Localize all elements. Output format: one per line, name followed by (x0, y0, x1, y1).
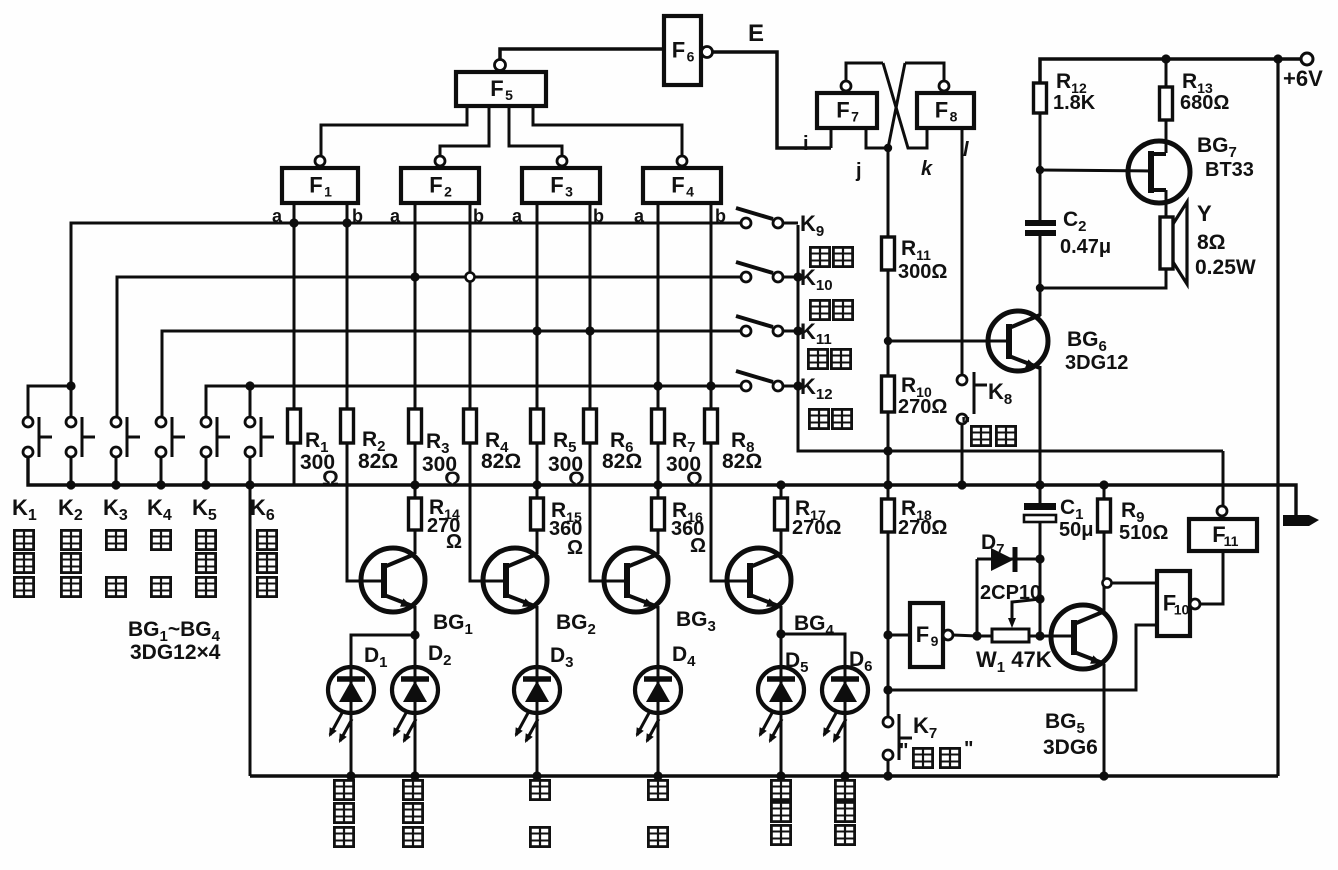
wire F2a column (414, 203, 417, 409)
label D6 ear-right (835, 780, 854, 799)
svg-text:Ω: Ω (444, 468, 461, 491)
svg-text:3DG12×4: 3DG12×4 (130, 641, 221, 664)
label K3 nose (106, 530, 125, 549)
svg-text:F: F (935, 98, 948, 123)
F10 output bubble (1190, 599, 1200, 609)
label K1 eye-left (14, 530, 33, 549)
svg-text:W1 47K: W1 47K (976, 647, 1052, 676)
label D3 nose (530, 780, 549, 799)
svg-text:8: 8 (950, 109, 958, 125)
resistor R4 82 (464, 409, 477, 443)
junction (653, 771, 662, 780)
wire D3 to bottom rail (536, 713, 539, 776)
transistor BG1 (361, 548, 425, 612)
resistor R17 270 (775, 498, 788, 530)
F9 output bubble (943, 630, 953, 640)
junction (66, 480, 75, 489)
wire R2 to BG1 base (347, 443, 384, 581)
logic gate F1 (282, 168, 358, 203)
wire BG3 emitter to D4 (657, 606, 660, 667)
net rail 4 (F4 outputs / K12) (206, 386, 741, 417)
junction (342, 218, 351, 227)
svg-text:Ω: Ω (690, 535, 706, 557)
wire BG7 emitter (1040, 170, 1151, 171)
svg-text:3: 3 (565, 184, 573, 200)
label K12 ears (809, 409, 828, 428)
junction (1273, 54, 1282, 63)
label K10 nose (810, 300, 829, 319)
LED D5 (758, 667, 804, 713)
junction (346, 771, 355, 780)
svg-text:300Ω: 300Ω (898, 261, 947, 283)
wire BG1 emitter (414, 606, 417, 635)
wire to F11 input (1222, 451, 1225, 506)
wire collector resistor to transistor (780, 530, 783, 554)
wire R6 to BG3 base (590, 443, 627, 581)
switch K12 (736, 371, 783, 391)
wire BG6 base (888, 340, 1009, 343)
wire C1 to timing node (1039, 522, 1042, 636)
wire speaker to C2 bottom (1040, 269, 1166, 288)
svg-text:0.25W: 0.25W (1195, 256, 1256, 279)
junction (840, 771, 849, 780)
label K9 eyes (810, 247, 829, 266)
resistor R12 1.8K (1034, 83, 1047, 113)
junction (289, 218, 298, 227)
transistor BG6 3DG12 (988, 311, 1048, 371)
junction (793, 381, 802, 390)
wire F4b column (710, 203, 713, 409)
junction (653, 480, 662, 489)
wire rail to collector resistor (780, 485, 783, 498)
junction (883, 771, 892, 780)
logic gate F10 (1157, 571, 1190, 636)
wire R8 to BG4 base (711, 443, 750, 581)
label K11 mouth (808, 349, 827, 368)
F8 input bubble (939, 81, 949, 91)
wire K1-K2 bracket (28, 386, 71, 417)
junction (410, 771, 419, 780)
svg-text:1.8K: 1.8K (1053, 92, 1096, 114)
capacitor C1 50u (1024, 503, 1056, 522)
svg-text:9: 9 (931, 633, 939, 649)
resistor R14 270 (409, 498, 422, 530)
junction BG7 emitter (1036, 166, 1044, 174)
wire K2 to rail (70, 457, 73, 485)
wire F7 output top (846, 63, 883, 81)
svg-text:Ω: Ω (446, 531, 462, 553)
junction (1161, 54, 1170, 63)
resistor R15 360 (531, 498, 544, 530)
wire D1 to bottom rail (350, 713, 353, 776)
svg-text:5: 5 (505, 87, 513, 103)
wire rail to R18 (887, 485, 890, 499)
junction j (884, 144, 892, 152)
resistor R10 270 (882, 376, 895, 412)
F2 input bubble (435, 156, 445, 166)
junction (1099, 480, 1108, 489)
capacitor C2 (1025, 220, 1056, 236)
wire R9 to BG5 collector (1103, 532, 1106, 611)
svg-text:": " (899, 740, 908, 762)
wire resistor to common rail (657, 443, 660, 485)
junction (776, 629, 785, 638)
logic gate F9 (910, 603, 943, 667)
svg-text:F: F (490, 76, 503, 101)
wire F3b column (589, 203, 592, 409)
LED D2 light arrows (394, 713, 416, 741)
F5 input bubble (495, 60, 506, 71)
wire F1b column (346, 203, 349, 409)
logic gate F11 (1189, 519, 1257, 551)
svg-text:i: i (803, 133, 809, 155)
junction (201, 480, 210, 489)
switch K10 (736, 262, 783, 282)
F4 input bubble (677, 156, 687, 166)
resistor R11 300 (882, 237, 895, 270)
wire rail to R13 (1165, 59, 1168, 87)
junction (883, 446, 892, 455)
resistor R18 270 (882, 499, 895, 532)
wire resistor to common rail (293, 443, 296, 485)
svg-text:6: 6 (687, 49, 695, 65)
svg-text:F: F (309, 173, 322, 198)
junction (156, 480, 165, 489)
wire K5 to rail (205, 457, 208, 485)
wire rail to collector resistor (414, 485, 417, 498)
LED D1 (328, 667, 374, 713)
junction (653, 381, 662, 390)
wire F10 to F11 (1200, 551, 1223, 604)
wire K12 to selector rail (783, 385, 798, 388)
wire F1a column (293, 203, 296, 409)
net rail 2 (F2 outputs / K10) (117, 277, 741, 417)
svg-text:1: 1 (324, 184, 332, 200)
wire K3 to rail (115, 457, 118, 485)
wire rail to collector resistor (657, 485, 660, 498)
wire R12 to C2 (1039, 113, 1042, 221)
junction (776, 480, 785, 489)
wire l to K8 (961, 128, 964, 375)
junction (883, 630, 892, 639)
wire F5 to F1 (321, 106, 467, 156)
wire rail to C1 (1039, 485, 1042, 503)
resistor R7 300 (652, 409, 665, 443)
transistor BG4 (727, 548, 791, 612)
wire W1 to BG5 base (1029, 635, 1075, 638)
svg-text:F: F (836, 98, 849, 123)
wire BG5 emitter to bottom rail (1103, 664, 1106, 776)
svg-text:82Ω: 82Ω (481, 450, 521, 473)
wire to W1 (977, 635, 992, 638)
logic gate F5 (456, 72, 546, 106)
svg-text:F: F (550, 173, 563, 198)
svg-text:Y: Y (1197, 201, 1212, 226)
wire to F9 input (888, 634, 910, 637)
svg-text:F: F (672, 38, 685, 63)
wire D5 to bottom rail (780, 713, 783, 776)
transistor BG5 3DG6 (1051, 605, 1115, 669)
LED D3 (514, 667, 560, 713)
svg-text:82Ω: 82Ω (722, 450, 762, 473)
logic gate F7 (817, 93, 877, 128)
wire BG4 emitter to D5 (780, 606, 783, 667)
+6V terminal (1301, 53, 1313, 65)
wire to D1 (351, 635, 415, 667)
wire F5 to F2 (440, 106, 489, 156)
net bottom supply rail (250, 774, 1278, 777)
wire F5 to F4 (533, 106, 682, 156)
junction (957, 480, 966, 489)
hop F2b on rail2 (466, 273, 475, 282)
junction (972, 631, 981, 640)
wire R4 to BG2 base (470, 443, 506, 581)
wire K2 stub (70, 386, 73, 417)
wire F7 cross to F8 input (883, 63, 927, 148)
wire collector resistor to transistor (414, 530, 417, 554)
wire resistor to common rail (536, 443, 539, 485)
wire R18 to K7 (887, 532, 890, 722)
junction (245, 480, 254, 489)
wire D6 to bottom rail (844, 713, 847, 776)
wire rail to R9 (1103, 485, 1106, 499)
logic gate F8 (917, 93, 974, 128)
svg-text:F: F (429, 173, 442, 198)
resistor R5 300 (531, 409, 544, 443)
svg-text:": " (961, 414, 970, 436)
wire K10 to selector rail (783, 276, 798, 279)
junction (793, 272, 802, 281)
junction (245, 381, 254, 390)
svg-text:": " (964, 738, 973, 760)
wire resistor to common rail (414, 443, 417, 485)
LED D3 light arrows (516, 713, 538, 741)
wire rail to collector resistor (536, 485, 539, 498)
junction (776, 771, 785, 780)
resistor R3 300 (409, 409, 422, 443)
junction (883, 480, 892, 489)
wire to D2 (414, 635, 417, 667)
label D1 eye-left (334, 780, 353, 799)
svg-text:BT33: BT33 (1205, 159, 1254, 181)
LED D5 light arrows (760, 713, 782, 741)
tap bubble BG5 collector (1103, 579, 1112, 588)
svg-text:j: j (855, 160, 862, 182)
label K2 eye-right (61, 530, 80, 549)
wire collector resistor to transistor (657, 530, 660, 554)
resistor R9 510 (1098, 499, 1111, 532)
wire F6 output E (712, 52, 831, 148)
F3 input bubble (557, 156, 567, 166)
diode D7 2CP10 (977, 547, 1040, 572)
svg-text:510Ω: 510Ω (1119, 522, 1168, 544)
svg-text:F: F (916, 622, 929, 647)
F7 input bubble (841, 81, 851, 91)
wire F8 output top (905, 63, 944, 81)
junction (1035, 480, 1044, 489)
svg-text:Ω: Ω (686, 468, 703, 491)
junction (410, 272, 419, 281)
switch K4 (156, 417, 185, 457)
switch K11 (736, 316, 783, 336)
LED D6 light arrows (824, 713, 846, 741)
resistor R8 82 (705, 409, 718, 443)
junction (66, 381, 75, 390)
wire D2 to bottom rail (414, 713, 417, 776)
wire K1 to rail (27, 457, 30, 485)
resistor R1 300 (288, 409, 301, 443)
junction (1035, 631, 1044, 640)
wire D4 to bottom rail (657, 713, 660, 776)
transistor BG7 BT33 (1128, 141, 1190, 203)
wire F5 to F6 (500, 49, 664, 59)
wire K6 stub (249, 386, 252, 417)
svg-text:8Ω: 8Ω (1197, 231, 1226, 254)
wire K6 to bottom rail (249, 457, 252, 776)
wire F9 output (953, 635, 977, 636)
resistor R6 82 (584, 409, 597, 443)
svg-text:270Ω: 270Ω (792, 517, 841, 539)
svg-text:11: 11 (1224, 533, 1239, 549)
wire collector resistor to transistor (536, 530, 539, 554)
svg-text:E: E (748, 20, 764, 47)
wire selector rail to F11 (798, 225, 1223, 451)
svg-text:82Ω: 82Ω (602, 450, 642, 473)
switch K6 (245, 417, 274, 457)
junction (706, 381, 715, 390)
resistor R2 82 (341, 409, 354, 443)
switch K3 (111, 417, 140, 457)
wire K7 to bottom rail (887, 760, 890, 776)
junction (410, 480, 419, 489)
LED D6 (822, 667, 868, 713)
junction speaker return (1036, 284, 1044, 292)
resistor R13 680 (1160, 87, 1173, 120)
switch K1 (23, 417, 52, 457)
label K4 mouth (151, 530, 170, 549)
wire F7 right pin node j (866, 128, 888, 148)
svg-text:3DG6: 3DG6 (1043, 736, 1098, 759)
wire F2b column (469, 203, 472, 409)
wire BG6 emitter to rail (1039, 366, 1042, 485)
junction (532, 480, 541, 489)
transistor BG3 (604, 548, 668, 612)
junction (532, 326, 541, 335)
wire j to R11 (887, 148, 890, 237)
wire K4 to rail (160, 457, 163, 485)
net rail 3 (F3 outputs / K11) (162, 331, 741, 417)
junction (1035, 594, 1044, 603)
label D2 eye-right (403, 780, 422, 799)
junction (585, 326, 594, 335)
svg-text:680Ω: 680Ω (1180, 92, 1229, 114)
svg-text:0.47μ: 0.47μ (1060, 236, 1111, 258)
junction (532, 771, 541, 780)
wire R13 to BG7 B2 (1165, 120, 1168, 153)
label K5 ear-left (196, 530, 215, 549)
potentiometer W1 47K (992, 599, 1040, 642)
svg-text:l: l (963, 139, 969, 161)
svg-text:270Ω: 270Ω (898, 396, 947, 418)
wire F10 lower input (888, 625, 1157, 690)
junction (1099, 771, 1108, 780)
F11 input bubble (1217, 506, 1227, 516)
wire BG7 B1 to speaker (1165, 190, 1168, 217)
LED D4 (635, 667, 681, 713)
LED D1 light arrows (330, 713, 352, 741)
transistor BG2 (483, 548, 547, 612)
logic gate F3 (522, 168, 600, 203)
wire F8 cross to F7 input (888, 63, 905, 148)
svg-text:k: k (921, 158, 933, 180)
net common emitter rail (28, 457, 1296, 516)
svg-text:Ω: Ω (568, 468, 585, 491)
LED D4 light arrows (637, 713, 659, 741)
switch K8 (957, 372, 987, 424)
resistor R16 360 (652, 498, 665, 530)
svg-text:Ω: Ω (567, 537, 583, 559)
junction BG6 base (884, 337, 892, 345)
wire C2 to BG6 collector (1039, 236, 1042, 316)
wire R10 to rail (887, 412, 890, 485)
junction (793, 326, 802, 335)
label D4 mouth (648, 780, 667, 799)
F6 output bubble (702, 47, 713, 58)
switch K5 (201, 417, 230, 457)
svg-text:270Ω: 270Ω (898, 517, 947, 539)
F1 input bubble (315, 156, 325, 166)
wire K9 to selector rail (783, 222, 798, 225)
wire to D6 (781, 634, 845, 667)
svg-text:+6V: +6V (1283, 66, 1323, 91)
ground symbol (1283, 515, 1319, 526)
speaker Y (1160, 202, 1187, 284)
switch K2 (66, 417, 95, 457)
label D5 ear-left (771, 780, 790, 799)
wire F3a column (536, 203, 539, 409)
svg-text:10: 10 (1174, 602, 1190, 618)
label K6 ear-right (257, 530, 276, 549)
wire F5 to F3 (509, 106, 562, 156)
svg-text:50μ: 50μ (1059, 519, 1093, 541)
net rail 1 (F1 outputs / K9) (71, 223, 741, 386)
wire BG2 emitter to D3 (536, 606, 539, 667)
svg-text:7: 7 (851, 109, 859, 125)
wire F7 left pin (830, 128, 833, 148)
junction (111, 480, 120, 489)
wire K8 to rail (961, 424, 964, 485)
junction (410, 630, 419, 639)
svg-text:2: 2 (444, 184, 452, 200)
junction (1035, 554, 1044, 563)
junction (883, 685, 892, 694)
logic gate F4 (643, 168, 721, 203)
svg-text:4: 4 (686, 184, 694, 200)
wire F4a column (657, 203, 660, 409)
svg-text:3DG12: 3DG12 (1065, 352, 1128, 374)
svg-text:82Ω: 82Ω (358, 450, 398, 473)
wire D7 to wiper node (976, 559, 979, 636)
switch K9 (736, 208, 783, 228)
LED D2 (392, 667, 438, 713)
logic gate F2 (401, 168, 479, 203)
logic gate F6 (664, 16, 701, 85)
wire +6V bus (1276, 59, 1279, 776)
wire BG5 collector to F10 (1112, 582, 1157, 585)
wire R11 to R10 (887, 270, 890, 376)
svg-text:F: F (671, 173, 684, 198)
wire K11 to selector rail (783, 330, 798, 333)
